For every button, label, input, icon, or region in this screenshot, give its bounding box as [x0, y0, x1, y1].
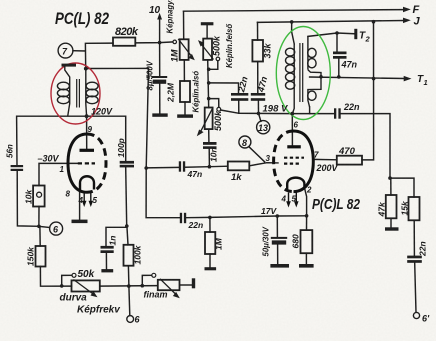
wire: 500k also wiper link — [209, 99, 219, 108]
junction J line transformer — [290, 20, 294, 24]
capacitor 22n bottom right — [407, 256, 422, 259]
wire: 500k felso bottom stem to Keplin also pot — [208, 60, 209, 108]
wire: 15k bottom to 22n — [413, 220, 415, 255]
triode V1a anode bar — [80, 149, 95, 152]
wire: J line drop to 33k top — [257, 22, 259, 40]
wire: pentode screen pin 7 to 470 — [313, 158, 337, 160]
wire: 10k bottom lead — [38, 207, 40, 227]
potentiometer finam — [158, 280, 180, 290]
triode V1a envelope solid left half — [68, 134, 87, 192]
wire: right 22n cap to 47k/15k node — [341, 114, 390, 179]
transformer TR2 secondary lower section — [308, 91, 316, 100]
wire: triode grid line -30V — [39, 163, 78, 185]
wire: 2.2M bottom to ground — [184, 102, 186, 114]
capacitor 50u/30V electrolytic — [271, 237, 287, 239]
terminal circle 13 — [257, 121, 270, 134]
wire: circle 8 link — [249, 147, 265, 162]
wire: 1M bottom resistor top lead — [209, 217, 211, 232]
wire: 150k bottom to durva pot — [40, 267, 71, 287]
capacitor 22n right (198V to 47k) — [334, 108, 336, 118]
wire: 33k bottom to 47n top — [257, 62, 259, 93]
wire: 100k bottom through to terminal 6 — [128, 266, 129, 316]
junction coupling node y168 — [144, 166, 148, 170]
junction 47k 15k node — [388, 176, 392, 180]
wire: durva to finam — [100, 285, 158, 288]
arrowhead 10 — [157, 13, 162, 20]
wire: 47n top-right cap top lead — [336, 33, 338, 51]
wire: 47k bottom to ground — [390, 218, 392, 227]
resistor 10k with dot — [33, 186, 45, 207]
wire: F line drop to 1M pot top — [183, 11, 185, 39]
wire: J bus line to arrow J — [257, 21, 403, 23]
junction anode pin6 198V — [290, 112, 294, 116]
transformer TR2 secondary tap to T1 — [308, 70, 321, 91]
ground bar under 680 — [299, 264, 314, 268]
transformer TR2 primary winding (green) — [292, 44, 294, 114]
triode V1a grid dashes — [78, 162, 95, 164]
wire: 47n series cap to 10n node to 1k — [185, 166, 228, 167]
junction node 6 — [37, 225, 41, 229]
wire: 1M pot bottom to 2.2M top — [183, 60, 185, 81]
potentiometer 500k Keplin felso — [203, 39, 212, 60]
junction 50u top 17V — [276, 214, 280, 218]
pentode V1b envelope solid right half — [294, 131, 314, 192]
wire: 680 bottom to ground — [305, 253, 307, 264]
wire: 1k right lead to pentode grid pin 3 — [249, 163, 278, 166]
transformer TR1 right winding — [85, 69, 88, 117]
capacitor 47n top right — [333, 52, 347, 55]
wire: 500k felso wiper link — [209, 61, 218, 70]
wire: finam right end to stop bar — [180, 284, 192, 286]
pentode V1b envelope dashed left half — [274, 131, 294, 192]
junction 47n bottom T1 — [337, 75, 341, 79]
terminal circle 6 — [50, 222, 63, 235]
capacitor 8u/500V electrolytic — [152, 76, 167, 78]
junction node at 820k/10/8u — [158, 41, 162, 45]
pentode V1b anode bar — [287, 145, 301, 148]
junction 47n bottom 198V — [257, 112, 261, 116]
ground bar under 1M lower — [205, 267, 217, 270]
terminal bar T2 — [354, 29, 357, 39]
capacitor 22n series (17V line) — [180, 213, 182, 223]
wire: 10n top lead — [208, 129, 210, 142]
ground bar under triode cathode — [72, 220, 88, 224]
wire: vertical J-to-470 resistor right end — [362, 22, 374, 160]
transformer TR1 primary top cap bar — [62, 64, 77, 67]
wire: 47n bottom to 198V line — [257, 101, 259, 114]
wire: arrow 10 up — [159, 17, 161, 43]
arrowhead T1 — [404, 76, 412, 82]
resistor 470 — [337, 156, 362, 165]
resistor 2.2M — [180, 81, 190, 102]
resistor 1k — [228, 162, 250, 171]
resistor 100k — [124, 245, 134, 266]
triode V1a envelope dashed right half — [87, 134, 106, 192]
wire: triode anode stem pin 9 — [86, 116, 88, 148]
capacitor 47n series (to 1k) — [179, 161, 181, 171]
wire: circle 7 link — [73, 50, 85, 52]
terminal circle 8 — [239, 136, 251, 148]
heater arrow pin 4 (V1a) — [83, 191, 85, 203]
wire: 47k top lead — [390, 178, 392, 195]
junction 680 top pin2 — [305, 214, 309, 218]
wire: 22n bottom to 198V line — [238, 101, 240, 114]
junction durva wiper — [60, 284, 64, 288]
transformer TR2 secondary upper section — [307, 36, 309, 46]
potentiometer 50k durva — [72, 280, 100, 291]
chassis T-bar over 500k felso — [201, 22, 214, 25]
triode V1a cathode arch — [80, 176, 94, 189]
wire: pentode anode stem pin 6 — [291, 114, 293, 145]
potentiometer 1M Kepnagysag — [180, 39, 189, 60]
wire: bottom right 22n to terminal 6' — [415, 263, 416, 312]
red ellipse annotation — [51, 63, 100, 124]
wire: 56n bottom lead to node 6 — [17, 171, 39, 227]
finam end stop bar — [192, 278, 195, 288]
junction T1 vertical — [372, 77, 376, 81]
pentode V1b control grid dashes — [284, 163, 299, 165]
heater arrow pin 4 (V1b) — [288, 193, 290, 204]
ground bar under 8u — [152, 113, 167, 116]
wire: 198V line continues to right 22n cap — [292, 113, 334, 115]
ground bar under 2.2M — [177, 114, 193, 117]
capacitor 22n coupling (Keplin) — [231, 93, 248, 96]
junction J vertical — [372, 20, 376, 24]
terminal circle 6 bottom — [127, 316, 134, 323]
junction transformer TR1 top — [84, 67, 88, 71]
wire: 10n bottom lead — [208, 149, 210, 167]
junction transformer TR1 bottom 120V — [85, 114, 89, 118]
wire: 56n top lead and 120V rail to 100p — [17, 116, 126, 165]
resistor 15k — [409, 197, 420, 220]
ground bar under 1n — [101, 269, 113, 272]
wire: node 6 circle link — [39, 226, 50, 227]
wire: node line y83 to 22n coupling cap — [209, 83, 239, 93]
junction 100k drop — [127, 284, 131, 288]
wire: 47n top-right cap bottom lead to T1 — [338, 59, 340, 77]
arrowhead J — [403, 18, 411, 24]
wire: 198V line from 500k also wiper to anode junction — [221, 110, 293, 114]
wire: 150k top lead — [39, 226, 41, 246]
wire: 1n bottom to ground — [105, 254, 107, 269]
wire: coupling node down to 17V line — [146, 168, 180, 218]
wire: T1 bus line to arrow T1 — [310, 77, 404, 79]
wire: F bus line to arrow F — [184, 10, 404, 12]
resistor 150k — [36, 246, 46, 267]
wire: durva wiper link — [62, 275, 72, 286]
ground bar under 50u — [270, 264, 289, 268]
junction T2 tap — [335, 31, 339, 35]
wire: 820k right lead to node 10 and 1M wiper — [135, 42, 173, 43]
wire: 8u cap bottom lead to ground — [159, 84, 161, 114]
wire: branch to 1n — [106, 227, 127, 246]
wire: green transformer secondary bottom to 198V line — [309, 107, 311, 114]
capacitor 47n coupling (Keplin) — [251, 93, 265, 96]
resistor 820k — [113, 38, 135, 46]
capacitor 1n — [101, 246, 114, 249]
wire: node line y167 to 47n series cap — [146, 166, 179, 169]
transformer TR1 left winding — [65, 67, 70, 117]
wire: circle 13 link — [259, 114, 261, 122]
wire: 50u cap bottom to ground — [277, 245, 279, 264]
resistor 47k — [386, 195, 397, 218]
junction y83 node — [207, 81, 211, 85]
wire: 50u cap top lead — [276, 216, 278, 237]
pentode V1b screen grid dashes — [284, 157, 304, 159]
wire: 100p bottom lead — [126, 167, 127, 225]
junction 500k also wiper — [207, 97, 211, 101]
resistor 33k — [252, 40, 263, 62]
potentiometer 500k Keplin also — [205, 108, 213, 130]
heater arrow pin 5 (V1a) — [90, 191, 92, 203]
wire: 17V line from 22n to pentode cathode — [186, 216, 306, 218]
ground bar under 47k — [385, 227, 399, 230]
terminal circle 7 — [58, 43, 73, 58]
arrowhead F — [403, 7, 411, 13]
transformer TR2 core — [300, 43, 303, 102]
wire: triode anode line y68 down to coupling node — [86, 68, 149, 168]
wire: finam wiper link — [142, 275, 151, 285]
wire: 100k top lead — [127, 226, 128, 245]
capacitor 10n — [203, 142, 217, 145]
wire: pentode cathode pin 2 drop — [304, 188, 306, 216]
wire: 680 top lead — [306, 216, 308, 230]
junction finam wiper — [141, 284, 145, 288]
green ellipse annotation — [276, 27, 330, 120]
resistor 680 — [301, 230, 313, 253]
heater arrow pin 5 (V1b) — [295, 193, 297, 204]
capacitor 100p — [120, 161, 134, 164]
wire: 500k felso T-bar stem — [206, 25, 208, 38]
wire: 8u cap top lead — [159, 43, 161, 76]
junction 500k felso wiper — [207, 68, 211, 72]
capacitor 56n — [11, 165, 24, 167]
terminal circle 6' bottom right — [413, 312, 419, 318]
wire: 820k left lead down to transformer top junction — [85, 43, 113, 68]
junction 10n node — [208, 165, 212, 169]
wire: T2 tap from green transformer — [308, 33, 354, 36]
pentode V1b cathode arch — [287, 178, 304, 191]
transformer TR1 core — [77, 79, 80, 108]
wire: triode cathode stem pin 8 to ground — [79, 190, 81, 220]
wire: 1M bottom resistor to ground — [209, 254, 211, 267]
junction 100p/1n/100k node — [125, 224, 129, 228]
junction 1M lower top — [208, 216, 212, 220]
junction T1 tap — [319, 75, 323, 79]
resistor 1M lower — [205, 232, 215, 254]
wire: 47k 15k feed node — [390, 178, 414, 197]
wire: J line to green transformer primary top — [292, 22, 295, 44]
